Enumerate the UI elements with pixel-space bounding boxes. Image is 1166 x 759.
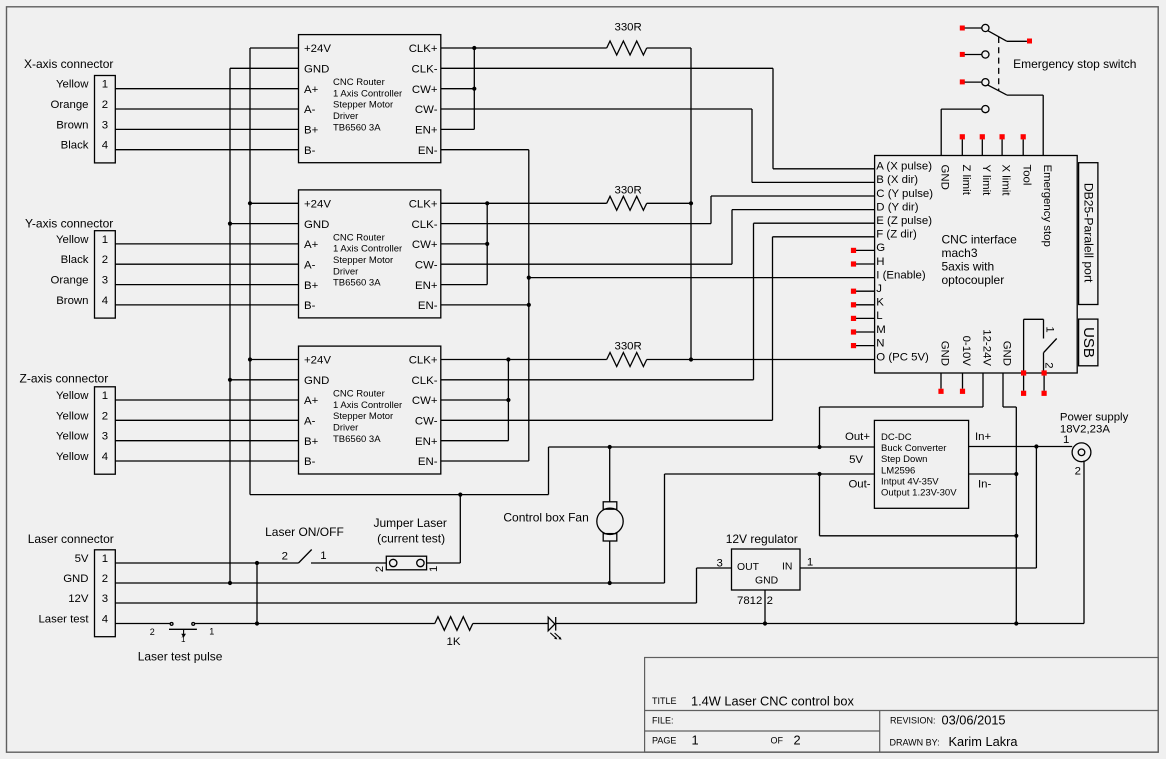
svg-text:In-: In- [978,478,991,490]
terminal pin K [851,302,856,307]
svg-text:TITLE: TITLE [652,696,677,706]
svg-text:CW-: CW- [415,416,438,428]
svg-text:O (PC 5V): O (PC 5V) [876,351,929,363]
wire CW- U3 [441,419,773,421]
resistor R4 1K [435,617,473,631]
svg-text:CW+: CW+ [412,84,438,96]
svg-text:EN+: EN+ [415,280,438,292]
svg-text:N: N [876,337,884,349]
svg-text:5V: 5V [75,553,89,565]
wire test line [195,623,435,625]
wire ground rail [556,623,1084,625]
junction [255,621,259,625]
wire In+ to power supply [969,446,1073,448]
wire pin A (X pulse) [773,168,875,170]
wire GND to switch contact [941,108,982,110]
wire to pin C [710,196,712,224]
connector J1 (X-axis connector) [24,57,115,163]
wire EN- U3 [441,460,529,462]
terminal switch pin a [1021,370,1026,375]
wire [115,108,298,110]
connector J2 (Y-axis connector) [25,217,115,319]
svg-text:Jumper Laser: Jumper Laser [374,516,447,530]
svg-text:12V regulator: 12V regulator [726,532,798,546]
wire 12-24V pin [820,373,984,447]
svg-text:2: 2 [794,733,801,748]
wire [115,128,298,130]
output switch (interface, pins 1-2) [1024,319,1057,373]
wire U3 opto common [507,360,509,441]
svg-text:1: 1 [102,553,108,565]
svg-text:3: 3 [102,431,108,443]
wire [115,304,298,306]
wire [115,460,298,462]
svg-text:DC-DC: DC-DC [881,432,912,443]
svg-text:B+: B+ [304,125,319,137]
wire power supply pin 2 [1083,461,1085,624]
svg-text:Intput 4V-35V: Intput 4V-35V [881,476,939,487]
junction [1014,472,1018,476]
svg-text:CNC Router: CNC Router [333,232,385,243]
svg-text:B (X dir): B (X dir) [876,174,918,186]
title block [645,658,1159,753]
svg-text:18V2,23A: 18V2,23A [1060,423,1110,435]
svg-text:2: 2 [767,595,773,607]
svg-text:In+: In+ [975,431,991,443]
svg-text:1 Axis Controller: 1 Axis Controller [333,244,402,255]
junction [1034,444,1038,448]
wire pin I (Enable) [529,277,875,279]
svg-text:GND: GND [939,341,951,366]
svg-text:5V: 5V [849,454,863,466]
svg-text:03/06/2015: 03/06/2015 [942,713,1006,728]
terminal pin M [851,329,856,334]
svg-text:G: G [876,242,885,254]
terminal 0-10V [960,389,965,394]
svg-text:Laser connector: Laser connector [28,532,114,546]
svg-text:Emergency stop switch: Emergency stop switch [1013,57,1136,71]
svg-text:2: 2 [102,99,108,111]
svg-text:1: 1 [320,550,326,562]
svg-text:Black: Black [61,140,89,152]
svg-text:CNC Router: CNC Router [333,389,385,400]
wire +5V common node [690,48,692,360]
junction [506,398,510,402]
svg-text:X limit: X limit [1000,165,1012,197]
stepper motor driver U3 (TB6560 CNC Router 1 Axis Controller) [299,346,441,474]
junction [1014,534,1018,538]
svg-text:1 Axis Controller: 1 Axis Controller [333,400,402,411]
svg-text:Z-axis connector: Z-axis connector [20,372,109,386]
svg-text:EN-: EN- [418,145,438,157]
wire 12V line to regulator OUT [115,568,731,603]
svg-text:X-axis connector: X-axis connector [24,57,113,71]
wire pin J stub [856,290,875,292]
junction [689,357,693,361]
svg-text:GND: GND [63,573,88,585]
svg-text:330R: 330R [615,341,642,353]
svg-text:4: 4 [102,295,108,307]
wire EN+ U3 [441,440,509,442]
wire Z limit pin [961,139,963,155]
wire Tool pin [1022,139,1024,155]
svg-text:1: 1 [428,566,440,572]
terminal pin G [851,248,856,253]
svg-text:PAGE: PAGE [652,736,676,746]
svg-text:GND: GND [304,375,329,387]
svg-text:D (Y dir): D (Y dir) [876,201,918,213]
terminal switch pin b [1042,370,1047,375]
svg-text:CLK-: CLK- [412,375,438,387]
wire pin G stub [856,249,875,251]
wire EN+ U2 [441,284,487,286]
wire CW+ U1 [441,88,475,90]
svg-text:1: 1 [209,626,214,636]
resistor R1 330R [607,41,647,55]
svg-text:A-: A- [304,416,316,428]
wire to pin E [753,223,755,380]
wire CLK- U2 [441,223,711,225]
svg-text:B+: B+ [304,436,319,448]
junction [763,621,767,625]
svg-text:Karim Lakra: Karim Lakra [949,734,1019,749]
wire to pin D [731,210,733,265]
wire CLK+ U1 to R1 [441,47,607,49]
wire CLK+ U3 to R3 [441,359,607,361]
svg-text:1: 1 [807,557,813,569]
svg-text:3: 3 [102,275,108,287]
junction [608,445,612,449]
svg-text:GND: GND [1001,341,1013,366]
svg-text:Power supply: Power supply [1060,412,1129,424]
svg-text:2: 2 [1075,465,1081,477]
svg-text:4: 4 [102,451,108,463]
svg-text:Yellow: Yellow [56,390,89,402]
wire EN+ U1 [441,128,475,130]
node GND rail [230,68,299,583]
terminal 1 [1021,391,1026,396]
svg-text:C (Y pulse): C (Y pulse) [876,188,933,200]
wire regulator IN to supply [800,447,1036,569]
svg-text:Driver: Driver [333,111,358,122]
wire laser test [115,623,170,625]
junction [472,46,476,50]
svg-text:B+: B+ [304,280,319,292]
wire pin K stub [856,304,875,306]
svg-text:A+: A+ [304,395,319,407]
svg-text:GND: GND [304,219,329,231]
node +24V rail [250,48,875,495]
svg-text:2: 2 [1043,362,1055,368]
wire [115,149,298,151]
wire pin L stub [856,317,875,319]
svg-text:2: 2 [102,573,108,585]
svg-text:TB6560 3A: TB6560 3A [333,434,381,445]
svg-text:LM2596: LM2596 [881,465,915,476]
svg-text:GND: GND [939,165,951,190]
DC-DC buck converter U5 (LM2596) [845,420,992,508]
stepper motor driver U1 (TB6560 CNC Router 1 Axis Controller) [299,35,441,163]
wire [115,284,298,286]
wire CW+ U2 [441,243,487,245]
svg-text:M: M [876,324,886,336]
svg-text:CNC Router: CNC Router [333,77,385,88]
svg-text:L: L [876,310,882,322]
svg-text:Z limit: Z limit [960,165,972,196]
svg-text:Driver: Driver [333,423,358,434]
svg-text:optocoupler: optocoupler [942,273,1005,287]
junction [1014,621,1018,625]
wire [115,419,298,421]
svg-text:Yellow: Yellow [56,431,89,443]
svg-text:A-: A- [304,259,316,271]
wire R2 to +5V node [647,202,691,204]
svg-text:1: 1 [181,635,186,644]
svg-text:FILE:: FILE: [652,716,674,726]
wire pin N stub [856,345,875,347]
svg-text:Brown: Brown [56,119,88,131]
DB25-Parallel port connector [1079,163,1098,305]
terminal pin J [851,289,856,294]
svg-text:1: 1 [1063,434,1069,446]
svg-text:(current test): (current test) [377,532,445,546]
wire 5V tap to test line [256,563,258,624]
12V regulator U6 (7812) [717,549,814,607]
svg-text:EN-: EN- [418,300,438,312]
svg-text:H: H [876,256,884,268]
svg-text:3: 3 [102,593,108,605]
svg-text:4: 4 [102,140,108,152]
svg-text:4: 4 [102,614,108,626]
junction [248,201,252,205]
svg-text:CLK-: CLK- [412,64,438,76]
wire [115,399,298,401]
svg-text:CW-: CW- [415,104,438,116]
svg-text:CLK+: CLK+ [409,43,438,55]
junction [817,472,821,476]
emergency stop switch S1 pole 3 [960,79,1007,95]
switch contact circle (GND) [982,106,989,113]
svg-text:0-10V: 0-10V [960,336,972,367]
svg-text:CW+: CW+ [412,395,438,407]
junction [228,378,232,382]
svg-text:Laser test: Laser test [38,614,89,626]
wire CLK+ U2 to R2 [441,202,607,204]
wire pin C (Y pulse) [711,195,875,197]
emergency stop switch S1 pole 2 [960,51,989,58]
wire switch pin 1 [1023,376,1025,391]
wire X limit pin [1001,139,1003,155]
svg-text:1 Axis Controller: 1 Axis Controller [333,88,402,99]
svg-text:Driver: Driver [333,266,358,277]
wire enable common node [528,150,530,461]
wire CLK- U1 [441,67,773,69]
terminal GND [938,389,943,394]
svg-text:Yellow: Yellow [56,79,89,91]
wire [115,263,298,265]
svg-text:Laser test pulse: Laser test pulse [138,650,223,664]
svg-text:2: 2 [282,550,288,562]
wire to pin F [772,237,774,420]
svg-text:Yellow: Yellow [56,410,89,422]
wire switch pin 2 [1043,376,1045,391]
junction [485,242,489,246]
svg-text:7812: 7812 [737,595,762,607]
terminal Z limit [960,134,965,139]
wire 0-10V pin [962,373,964,389]
svg-text:Y limit: Y limit [980,165,992,197]
svg-text:A+: A+ [304,239,319,251]
CNC interface board U4 (mach3 5axis with optocoupler) [875,156,1078,374]
svg-text:Brown: Brown [56,295,88,307]
svg-text:Buck Converter: Buck Converter [881,443,946,454]
svg-text:1: 1 [102,390,108,402]
svg-text:mach3: mach3 [942,246,978,260]
svg-text:Laser ON/OFF: Laser ON/OFF [265,525,344,539]
wire GND pin (top) [940,109,942,155]
terminal Tool [1021,134,1026,139]
svg-text:A-: A- [304,104,316,116]
svg-text:Orange: Orange [51,99,89,111]
svg-text:TB6560 3A: TB6560 3A [333,278,381,289]
junction [458,493,462,497]
svg-text:EN+: EN+ [415,125,438,137]
svg-text:5axis with: 5axis with [942,260,995,274]
svg-text:Out+: Out+ [845,431,870,443]
resistor R3 330R [607,353,647,367]
svg-text:REVISION:: REVISION: [890,716,936,726]
wire GND pin (bottom) [940,373,942,389]
junction [527,303,531,307]
svg-text:Out-: Out- [848,478,870,490]
junction [472,87,476,91]
svg-text:EN+: EN+ [415,436,438,448]
svg-text:OUT: OUT [737,562,760,573]
terminal 2 [1042,391,1047,396]
svg-text:B-: B- [304,300,316,312]
svg-text:Orange: Orange [51,275,89,287]
wire to pin B [751,109,753,182]
svg-text:E (Z pulse): E (Z pulse) [876,215,932,227]
svg-text:Black: Black [61,254,89,266]
wire CLK- U3 [441,379,754,381]
terminal pin L [851,316,856,321]
svg-text:Output 1.23V-30V: Output 1.23V-30V [881,488,957,499]
svg-text:Tool: Tool [1021,165,1033,186]
wire pin O (PC 5V) [691,359,875,361]
wire Y limit pin [981,139,983,155]
wire laser 5V [115,562,298,564]
wire pin B (X dir) [752,181,875,183]
mechanical link (dashed) [998,37,1000,91]
svg-text:2: 2 [102,254,108,266]
wire [115,243,298,245]
wire U1 opto common [473,48,475,129]
svg-text:F (Z dir): F (Z dir) [876,229,917,241]
wire R3 to +5V node [647,359,691,361]
svg-text:K: K [876,297,884,309]
svg-text:GND: GND [755,576,778,587]
power supply connector P1 [1063,434,1091,477]
wire Out- to ground [665,474,1017,583]
svg-text:A (X pulse): A (X pulse) [876,161,932,173]
wire In- [969,473,1017,475]
svg-text:+24V: +24V [304,355,331,367]
junction [608,581,612,585]
wire pin D (Y dir) [732,209,875,211]
svg-text:12V: 12V [68,593,89,605]
jumper J5 (current test) [374,556,440,572]
svg-text:DB25-Paralell port: DB25-Paralell port [1081,183,1095,283]
svg-text:CLK-: CLK- [412,219,438,231]
wire R1 to +5V node [647,47,691,49]
junction [817,445,821,449]
svg-text:+24V: +24V [304,43,331,55]
USB connector [1079,319,1098,366]
junction [228,222,232,226]
svg-text:1: 1 [102,79,108,91]
wire CW- U1 [441,108,752,110]
svg-text:Step Down: Step Down [881,454,927,465]
svg-text:Yellow: Yellow [56,451,89,463]
junction [255,561,259,565]
svg-text:EN-: EN- [418,456,438,468]
LED D1 [548,617,562,640]
wire pin F (Z dir) [773,236,875,238]
svg-text:330R: 330R [615,184,642,196]
svg-text:Control box Fan: Control box Fan [503,511,588,525]
junction [248,357,252,361]
wire EN- U1 [441,149,529,151]
stepper motor driver U2 (TB6560 CNC Router 1 Axis Controller) [299,190,441,318]
wire jumper to +24V rail [427,495,461,563]
svg-text:CNC interface: CNC interface [942,233,1018,247]
svg-text:DRAWN BY:: DRAWN BY: [890,738,940,748]
pushbutton S3 (laser test pulse) [150,623,215,645]
svg-text:Emergency stop: Emergency stop [1041,165,1053,247]
svg-text:OF: OF [771,736,784,746]
svg-text:1: 1 [1043,326,1055,332]
wire S1 to Emergency stop pin [1007,94,1043,96]
svg-text:1.4W Laser CNC control box: 1.4W Laser CNC control box [691,694,854,709]
emergency stop switch S1 pole 1 [960,24,1032,43]
wire pin H stub [856,263,875,265]
wire laser GND [115,582,664,584]
wire GND pin to common ground [1003,373,1016,624]
terminal X limit [1000,134,1005,139]
svg-text:J: J [876,283,882,295]
svg-text:+24V: +24V [304,199,331,211]
wire regulator GND [764,590,766,624]
svg-text:12-24V: 12-24V [981,329,993,366]
svg-text:I (Enable): I (Enable) [876,269,926,281]
svg-text:Y-axis connector: Y-axis connector [25,217,113,231]
wire EN- U2 [441,304,529,306]
svg-text:CLK+: CLK+ [409,199,438,211]
svg-text:GND: GND [304,64,329,76]
svg-text:B-: B- [304,145,316,157]
svg-text:1: 1 [102,234,108,246]
wire CW- U2 [441,263,732,265]
svg-text:USB: USB [1080,327,1097,358]
svg-text:1: 1 [692,733,699,748]
svg-text:Stepper Motor: Stepper Motor [333,411,393,422]
svg-text:330R: 330R [615,22,642,34]
svg-text:CLK+: CLK+ [409,355,438,367]
terminal pin H [851,261,856,266]
svg-text:Stepper Motor: Stepper Motor [333,255,393,266]
svg-text:2: 2 [102,410,108,422]
